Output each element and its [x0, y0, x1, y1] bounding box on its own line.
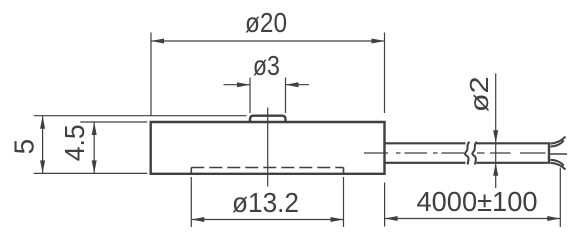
svg-text:4.5: 4.5	[59, 124, 90, 161]
dim Ø3 extension line right	[285, 78, 287, 114]
dim Ø2 arrow upper (pointing down)	[493, 130, 498, 143]
dim 4000 dimension line	[385, 218, 561, 220]
dim Ø13.2 arrow right	[331, 217, 344, 222]
dim 4000 arrow left	[385, 216, 398, 221]
svg-text:ø3: ø3	[253, 50, 280, 81]
dim 5 dimension line	[42, 116, 44, 174]
dim 4.5 arrow bottom	[92, 160, 97, 173]
dim Ø13.2 extension line left	[190, 177, 192, 227]
dim Ø3 arrow left (pointing right)	[237, 82, 250, 87]
wire strand top inner	[551, 141, 564, 147]
dim Ø20 arrow left	[151, 39, 164, 44]
dim 5 arrow bottom	[40, 160, 45, 173]
cable centerline dashes	[364, 152, 546, 154]
svg-text:ø13.2: ø13.2	[232, 187, 299, 218]
svg-text:ø20: ø20	[245, 7, 287, 38]
dim Ø20 arrow right	[372, 39, 385, 44]
dim shared extension line bottom	[34, 172, 148, 174]
dim 4000 extension line left	[384, 183, 386, 227]
svg-text:ø2: ø2	[464, 76, 494, 112]
dim 4.5 dimension line	[93, 122, 95, 173]
wire strand bottom inner	[551, 160, 564, 166]
dim Ø3 arrow right (pointing left)	[286, 82, 299, 87]
dim Ø2 dimension line	[495, 73, 497, 188]
svg-text:5: 5	[9, 139, 40, 155]
wire strand middle	[550, 153, 567, 155]
dim 4.5 arrow top	[92, 122, 97, 135]
cable top line right section	[477, 142, 548, 144]
dim Ø3 dimension line left segment	[224, 84, 251, 86]
dim Ø3 extension line left	[249, 78, 251, 114]
dim 4000 extension line right	[559, 168, 561, 228]
cable top line left section	[385, 142, 466, 144]
svg-text:4000±100: 4000±100	[417, 186, 538, 217]
body outline (sensor side view)	[151, 122, 385, 174]
dim 4.5 extension line top	[80, 121, 147, 123]
dim Ø20 dimension line	[151, 40, 385, 42]
hidden recess top line (dashed, Ø13.2)	[191, 167, 343, 169]
dim Ø20 extension line right	[384, 33, 386, 114]
wire strand bottom outer	[551, 163, 566, 170]
cable end cap	[548, 142, 550, 164]
vertical centerline	[267, 108, 269, 187]
hidden recess left side	[190, 168, 192, 174]
dim 5 extension line top	[34, 115, 247, 117]
cable bottom line left section	[385, 162, 466, 164]
dim Ø13.2 extension line right	[343, 177, 345, 227]
wire strand top outer	[551, 137, 566, 144]
dim Ø2 arrow lower (pointing up)	[493, 163, 498, 176]
cable bottom line right section	[477, 162, 548, 164]
dim Ø20 extension line left	[150, 33, 152, 116]
dim Ø13.2 dimension line	[191, 219, 343, 221]
dim 5 arrow top	[40, 116, 45, 129]
dim Ø3 dimension line right segment	[286, 84, 310, 86]
dim Ø13.2 arrow left	[191, 217, 204, 222]
cable break S-curve 1	[465, 142, 469, 165]
hidden recess right side	[343, 168, 345, 174]
cable break S-curve 2	[472, 142, 476, 165]
dim 4000 arrow right	[547, 216, 560, 221]
boss (Ø3 button on top)	[250, 116, 286, 122]
